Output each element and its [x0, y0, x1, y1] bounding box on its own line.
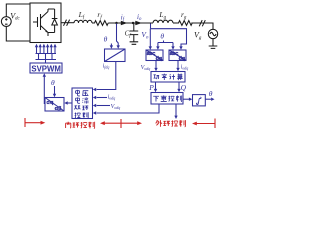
svg-text:iodq: iodq [108, 95, 116, 101]
outer loop right bar [214, 119, 216, 129]
arrowhead iodq into power calc [176, 68, 179, 71]
theta arrow into dq/ab [54, 86, 56, 94]
svg-text:dq: dq [46, 100, 54, 106]
wire P down [155, 82, 157, 90]
svg-text:dq: dq [156, 56, 162, 62]
inductor Lg [153, 20, 173, 23]
node Cf junction [132, 22, 134, 24]
node if junction [115, 22, 117, 24]
arrowhead io into block [179, 46, 182, 49]
svg-text:iodq: iodq [181, 65, 189, 71]
IGBT Q1 [33, 9, 48, 36]
wire if junction to abc/dq [117, 24, 119, 47]
labels for main circuit (black italic) [10, 10, 202, 41]
arrowhead Vodq into power calc [154, 68, 157, 71]
gate bus 2 [36, 59, 57, 61]
svg-text:Vdc: Vdc [10, 11, 20, 21]
theta label stem to if block [110, 44, 112, 48]
boundary tick [120, 119, 122, 128]
gate arrowheads [35, 44, 57, 48]
resistor rf [92, 21, 108, 26]
navy text labels [51, 13, 213, 110]
svg-text:Lg: Lg [158, 10, 166, 21]
svg-text:ifdq: ifdq [103, 64, 110, 70]
arrowhead theta into if abc/dq [110, 45, 113, 48]
arrowhead theta into io block [171, 46, 174, 49]
arrowhead Vref into controller [93, 111, 96, 114]
ground under Cf [130, 42, 139, 45]
wire controller to dq/ab [68, 102, 73, 104]
arrowhead into SVPWM [43, 73, 46, 76]
svg-text:Q: Q [181, 83, 187, 92]
SVPWM text [31, 64, 61, 73]
arrowhead Vo into block [149, 46, 152, 49]
arrowhead theta into Vo block [156, 46, 159, 49]
svg-text:rf: rf [97, 10, 102, 21]
theta stem middle [158, 41, 173, 47]
wire droop to integrator [183, 98, 190, 100]
svg-text:Vo: Vo [141, 30, 149, 41]
wire Lg to rg [173, 22, 177, 24]
text gonglv jisuan power calc [154, 75, 160, 79]
wire Q down [178, 82, 180, 90]
svg-text:SVPWM: SVPWM [31, 64, 61, 73]
power calc box [151, 72, 185, 83]
inductor Lf [74, 20, 92, 23]
wire Vref droop to controller [97, 105, 160, 114]
wire Vdc bottom to inverter [6, 26, 30, 41]
svg-text:αβ: αβ [55, 106, 63, 112]
stub Vodq into controller [97, 105, 111, 107]
svg-text:io: io [137, 13, 142, 22]
svg-text:abc: abc [147, 51, 156, 57]
arrowhead P into droop [154, 89, 157, 92]
arrowhead into dq/ab from controller [64, 101, 67, 104]
wire Vo down to abc/dq [149, 29, 151, 47]
svg-text:dq: dq [179, 56, 185, 62]
svg-text:rg: rg [181, 10, 187, 21]
integrator box [193, 95, 206, 106]
wire dq/ab to SVPWM [43, 77, 46, 104]
svg-text:Vodq: Vodq [141, 65, 151, 71]
inverter box [30, 3, 61, 43]
current arrow io [135, 21, 142, 26]
arrowhead iodq into controller [93, 96, 96, 99]
CJK block texts (navy) [74, 74, 182, 119]
blue line io measurement [151, 29, 187, 47]
abc/dq block for if [105, 49, 126, 62]
current arrow if [121, 21, 128, 26]
arrowhead Vodq into controller [93, 104, 96, 107]
svg-text:Lf: Lf [78, 10, 85, 21]
text waihuan kongzhi outer loop [156, 120, 162, 127]
svg-text:P: P [148, 83, 154, 92]
arrowhead outer left [192, 122, 197, 126]
outer loop right line [196, 123, 215, 125]
capacitor Cf [130, 23, 139, 42]
text xiachui kongzhi droop control [153, 96, 159, 101]
text controller dianya dianliu shuanghuan kongzhi [76, 90, 80, 96]
abc/dq block for io [169, 50, 186, 61]
ground under Vg [209, 39, 218, 49]
dq/ab transform block [45, 98, 64, 112]
arrowhead boundary right [137, 121, 142, 125]
gate bus stems [39, 54, 53, 64]
svg-text:θ: θ [104, 35, 108, 44]
wire integrator to theta [205, 98, 211, 100]
arrowhead ifdq into controller [93, 88, 96, 91]
wire iodq down [177, 61, 179, 69]
arrowhead integrator out [211, 98, 214, 101]
transform block small texts [46, 51, 185, 112]
dc source Vdc [1, 17, 11, 27]
svg-text:abc: abc [170, 51, 179, 57]
wire rf to Lg [108, 22, 153, 24]
3-phase hash [64, 20, 70, 26]
arrowhead if into abc/dq [117, 45, 120, 48]
arrowhead Q into droop [177, 89, 180, 92]
3-phase hash right [199, 20, 205, 26]
navy arrowheads [35, 44, 215, 119]
grid source Vg [208, 29, 217, 38]
SVPWM box [30, 63, 62, 73]
wire Vdc top to inverter [6, 4, 30, 17]
gate drive arrows into inverter [37, 47, 56, 54]
svg-text:θ: θ [160, 32, 164, 41]
voltage current dual loop controller box [72, 88, 93, 119]
inner loop left bar [24, 118, 26, 127]
svg-text:θ: θ [51, 78, 55, 87]
arrowhead omega down [174, 116, 177, 119]
arrowhead inner right [41, 121, 46, 125]
inner loop left arrow line [25, 122, 41, 124]
diode D1 [48, 9, 57, 33]
svg-text:Vodq: Vodq [111, 104, 121, 110]
arrowhead theta into dq/ab [53, 94, 56, 97]
wire Vo tap [150, 24, 152, 29]
IGBT emitter arrow [45, 30, 47, 32]
arrowhead into integrator [189, 98, 192, 101]
svg-text:θ: θ [209, 89, 213, 98]
omega down arrow from droop [175, 105, 177, 117]
boundary arrows line [104, 122, 139, 124]
droop control box [151, 93, 183, 105]
text neihuan kongzhi inner loop [66, 122, 71, 128]
wire ifdq to controller [97, 62, 116, 90]
integrator symbol [196, 97, 201, 105]
wire inverter output [61, 22, 74, 24]
stub iodq into controller [97, 97, 108, 99]
wire Vodq down [155, 61, 157, 69]
resistor rg [177, 21, 194, 26]
arrowhead boundary left [100, 121, 105, 125]
abc/dq block for Vo [146, 50, 163, 61]
svg-text:if: if [121, 13, 125, 22]
wire rg to Vg [191, 23, 213, 29]
gate bus 1 [36, 53, 57, 55]
svg-text:Vg: Vg [194, 31, 202, 42]
